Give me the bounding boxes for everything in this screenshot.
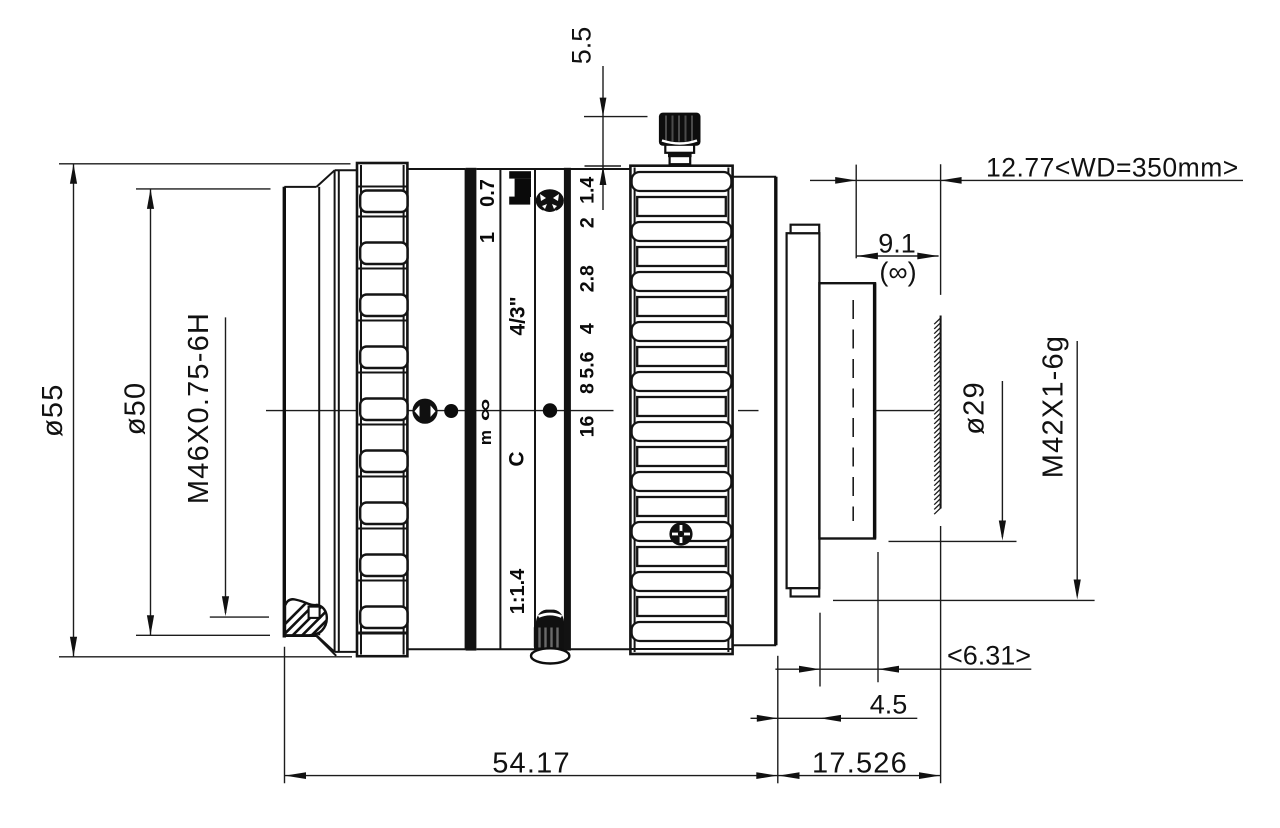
smooth ring with set screw xyxy=(407,169,465,649)
svg-text:4: 4 xyxy=(577,323,599,334)
dimension 4.5 xyxy=(751,690,918,722)
index dot xyxy=(444,404,458,418)
dimension phi50 xyxy=(120,189,271,635)
svg-text:1:1.4: 1:1.4 xyxy=(507,568,529,614)
thread callout M46X0.75-6H xyxy=(183,312,269,617)
dimension (6.31) xyxy=(775,552,1031,687)
svg-text:5.5: 5.5 xyxy=(567,27,597,65)
svg-text:4.5: 4.5 xyxy=(870,690,908,720)
svg-text:m: m xyxy=(476,430,495,445)
svg-text:∞: ∞ xyxy=(473,398,496,421)
svg-text:8: 8 xyxy=(577,383,599,394)
svg-text:M42X1-6g: M42X1-6g xyxy=(1038,335,1070,478)
svg-text:4/3": 4/3" xyxy=(506,296,529,335)
svg-text:5.6: 5.6 xyxy=(577,351,599,378)
dimension 9.1 (infinity) xyxy=(856,229,938,288)
bottom thumb screw xyxy=(531,610,569,664)
dimension 5.5 (knob height) xyxy=(567,27,648,210)
screw-carrier ring: oval screw head top xyxy=(536,189,564,213)
leader phi29 xyxy=(889,381,1017,541)
svg-text:ø29: ø29 xyxy=(958,381,990,435)
svg-text:17.526: 17.526 xyxy=(812,748,908,780)
svg-text:ø55: ø55 xyxy=(37,383,69,437)
rear body section xyxy=(733,177,777,646)
rear barrel (rear lens tube) xyxy=(819,283,875,538)
rear flange ring (M42 thread body) xyxy=(787,225,820,597)
svg-text:1.4: 1.4 xyxy=(577,177,599,204)
focus scale ring xyxy=(476,169,630,649)
phillips screw on aperture ring xyxy=(669,522,692,545)
svg-text:1: 1 xyxy=(477,232,499,243)
svg-text:C: C xyxy=(506,451,529,466)
svg-text:12.77<WD=350mm>: 12.77<WD=350mm> xyxy=(986,153,1239,183)
bottom dimensions 54.17 / 17.526 xyxy=(285,526,941,783)
svg-text:0.7: 0.7 xyxy=(477,179,499,207)
deep groove (black band) xyxy=(466,168,477,651)
svg-text:2.8: 2.8 xyxy=(577,265,599,292)
slotted set screw xyxy=(412,399,437,424)
deep groove 2 xyxy=(564,168,571,651)
front barrel (filter ring section) xyxy=(284,170,357,652)
aperture knurled ring xyxy=(630,166,732,654)
svg-text:(∞): (∞) xyxy=(879,257,916,287)
svg-text:<6.31>: <6.31> xyxy=(947,641,1031,671)
horizontal centerline xyxy=(266,410,614,412)
locking thumb knob on top xyxy=(659,113,701,165)
dimension phi55 xyxy=(37,164,352,657)
svg-text:9.1: 9.1 xyxy=(878,229,916,259)
svg-text:M46X0.75-6H: M46X0.75-6H xyxy=(183,312,215,504)
svg-text:16: 16 xyxy=(577,416,599,438)
filter thread relief section detail (hatched) xyxy=(268,596,370,656)
rear face at infinity (dashed) xyxy=(852,300,854,521)
dimension 12.77 (WD=350mm) xyxy=(810,153,1243,295)
fixed ring: index mark, 4/3", C, 1:1.4 xyxy=(509,171,531,204)
svg-text:ø50: ø50 xyxy=(120,382,152,436)
svg-text:54.17: 54.17 xyxy=(492,748,571,780)
svg-text:2: 2 xyxy=(577,217,599,228)
focus knurled ring xyxy=(357,163,408,656)
image plane with hatching xyxy=(934,316,940,515)
aperture scale numbers xyxy=(577,177,599,438)
leader M42X1-6g xyxy=(833,335,1095,601)
center index dot 2 xyxy=(543,403,557,417)
